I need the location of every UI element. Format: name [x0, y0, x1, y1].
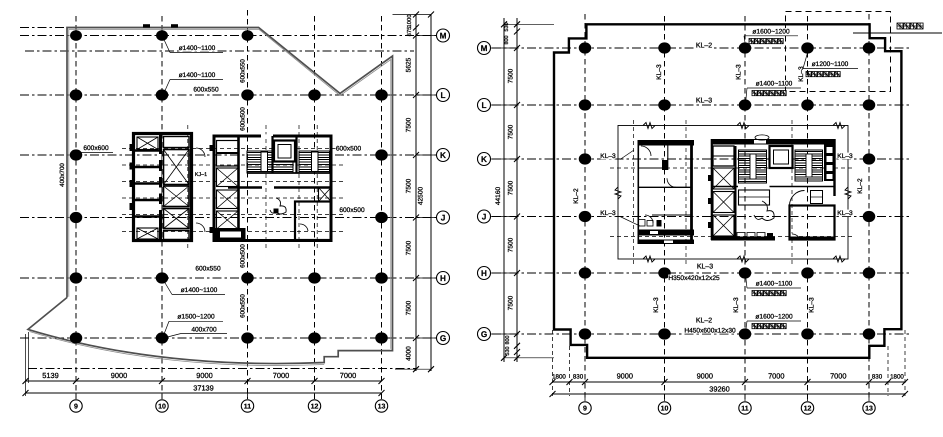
left plan core aux axis y231	[122, 231, 345, 233]
svg-text:7500: 7500	[406, 117, 413, 132]
svg-text:600x500: 600x500	[336, 146, 362, 153]
left core block B hatch bottom wall	[247, 172, 331, 174]
label 600x600 near K9	[83, 145, 109, 152]
right plan core aux axis x633	[633, 120, 635, 266]
left plan auxiliary axis y51	[25, 50, 414, 52]
left plan axis bubble 12	[314, 393, 316, 399]
left plan core label KJ-1	[195, 172, 207, 177]
right plan axis bubble L	[491, 104, 517, 106]
label KL-3 row K east	[838, 153, 853, 160]
column G-12	[308, 332, 321, 343]
right column M-12	[801, 42, 814, 53]
label hou-bao CJK top	[749, 39, 783, 44]
right plan left dim tick	[514, 102, 520, 108]
svg-text:KL–2: KL–2	[857, 178, 864, 194]
svg-text:KJ–1: KJ–1	[195, 172, 207, 178]
right plan left dim extension top	[504, 23, 554, 25]
svg-text:400x700: 400x700	[59, 163, 66, 187]
left plan bottom dim tick	[379, 378, 385, 384]
left core block A cell wall 4	[135, 199, 161, 201]
right core west block partition 3	[652, 214, 692, 216]
left plan slab outline	[28, 28, 393, 364]
svg-text:10: 10	[661, 405, 669, 412]
right core boundary box	[618, 126, 848, 260]
left plan bottom dim tick	[73, 378, 79, 384]
left core block B elevator flank wall west	[271, 136, 273, 173]
right core east lower-right door gap	[792, 234, 799, 241]
svg-text:ø1400~1100: ø1400~1100	[756, 81, 793, 88]
right plan axis bubble 12	[807, 394, 809, 401]
left plan right dimension line	[415, 14, 417, 371]
right core east stair rail east	[806, 154, 812, 177]
left plan right total dimension line	[430, 14, 432, 371]
right core west block left wall	[637, 140, 639, 244]
right plan bottom total dimension line	[553, 393, 906, 395]
label KL-2 row G	[696, 317, 712, 324]
right core east bottom wall	[711, 237, 775, 241]
column L-12	[308, 89, 321, 100]
svg-text:11: 11	[244, 403, 252, 410]
left core block B stair hatch east	[299, 151, 330, 173]
left plan core aux axis y165	[122, 164, 345, 166]
svg-text:7500: 7500	[406, 178, 413, 193]
column M-10	[156, 30, 168, 41]
column G-9	[70, 332, 83, 343]
column J-13	[375, 212, 388, 223]
left core block A elevator shaft X 1	[164, 150, 190, 185]
label phi1200-1100	[812, 61, 849, 68]
left plan row axis K	[20, 154, 448, 156]
left core block B small shaft X	[319, 188, 332, 202]
left plan axis bubble J	[416, 217, 436, 219]
left plan corner extension line	[28, 332, 30, 383]
left plan slab bottom edge second line	[30, 332, 325, 366]
svg-text:7000: 7000	[340, 371, 356, 380]
right core east stair hatch west	[739, 150, 767, 183]
left plan row axis J	[20, 217, 448, 219]
right core west block fixtures	[638, 220, 645, 227]
svg-text:M: M	[481, 44, 488, 53]
right plan row axis G	[492, 333, 912, 335]
svg-text:K: K	[440, 151, 446, 160]
column L-10	[156, 89, 169, 100]
left core block A outer walls	[134, 134, 192, 241]
right plan bottom dim tick	[866, 379, 872, 385]
left plan right dim tick	[413, 33, 419, 39]
svg-text:ø1400~1100: ø1400~1100	[756, 281, 793, 288]
right plan left dim extension bottom	[504, 357, 554, 359]
right column L-13	[863, 99, 876, 110]
svg-text:42500: 42500	[418, 187, 425, 206]
right core boundary break bottom	[643, 256, 655, 262]
right core east mid wall	[712, 186, 738, 188]
svg-text:G: G	[481, 330, 487, 339]
left plan top edge wall stub B	[171, 24, 178, 27]
label hou-bao CJK mid	[752, 91, 786, 96]
left plan column grid line 13	[381, 16, 383, 399]
right plan left dim tick	[514, 355, 520, 361]
left plan slab outline inner line	[69, 29, 391, 349]
right core east block shaft X 3	[713, 215, 734, 236]
left core block A center wall	[159, 134, 162, 241]
right core east block top wall	[711, 139, 835, 145]
svg-text:M: M	[440, 31, 447, 40]
svg-text:ø1500~1200: ø1500~1200	[177, 314, 215, 321]
left plan right dim tick	[413, 275, 419, 281]
right plan column grid line 11	[744, 16, 746, 399]
right core east stair landing	[739, 190, 770, 205]
right plan bottom dimension line	[553, 381, 906, 383]
svg-text:ø1600~1200: ø1600~1200	[752, 29, 790, 36]
right core east stair hatch east	[795, 150, 823, 181]
left plan axis bubble L	[416, 94, 436, 96]
right core east elevator	[770, 146, 793, 168]
right plan left dim tick	[514, 349, 520, 355]
svg-text:44160: 44160	[495, 187, 502, 206]
column G-13	[375, 332, 388, 343]
svg-text:ø1400~1100: ø1400~1100	[179, 45, 216, 52]
right plan column grid line 12	[807, 16, 809, 399]
left plan axis bubble 10	[161, 393, 163, 399]
left plan core aux axis y148	[122, 148, 345, 150]
column K-13	[375, 149, 388, 160]
right core west block partition 1	[638, 167, 668, 169]
column H-12	[308, 272, 321, 283]
left plan bottom dimension line	[26, 380, 382, 382]
right core east block shaft X 2	[713, 192, 734, 213]
right plan bottom dim tick	[885, 379, 891, 385]
right core east right wall	[833, 139, 835, 196]
svg-text:G: G	[440, 334, 446, 343]
left core block A door knob 3	[130, 180, 135, 187]
label phi1400-1100 right plan	[756, 80, 793, 87]
svg-text:ø1400~1100: ø1400~1100	[181, 287, 218, 294]
left core block A door knob 4	[130, 203, 135, 210]
right plan core aux axis x686	[685, 120, 687, 266]
right core west block right wall	[690, 140, 693, 244]
svg-text:11: 11	[741, 405, 749, 412]
left plan bottom dim extension 25	[25, 334, 27, 396]
left plan core aux axis x299	[298, 125, 300, 250]
svg-text:K: K	[481, 155, 487, 164]
left plan column grid line 10	[161, 16, 163, 399]
column K-9	[70, 149, 83, 160]
svg-text:530: 530	[504, 23, 510, 32]
svg-text:7500: 7500	[508, 180, 515, 195]
svg-text:800: 800	[505, 336, 511, 345]
svg-text:13: 13	[865, 405, 873, 412]
right column H-12	[801, 267, 814, 278]
svg-text:7000: 7000	[273, 371, 289, 380]
left core block A door knob 1	[130, 144, 135, 151]
right core east block shaft X 1	[713, 168, 734, 189]
right core west block bottom wall second	[638, 240, 695, 245]
right plan row axis L	[492, 104, 912, 106]
svg-text:530: 530	[505, 347, 511, 356]
left plan bottom dim tick	[159, 378, 165, 384]
svg-text:7500: 7500	[508, 124, 515, 139]
left plan right dim tick	[413, 335, 419, 341]
label KL-3 row J east	[838, 210, 853, 217]
left plan bottom dim tick	[245, 378, 251, 384]
svg-text:600x550: 600x550	[195, 266, 221, 273]
left plan core aux axis x187	[187, 125, 189, 248]
svg-text:KL–2: KL–2	[696, 43, 712, 50]
svg-text:KL–3: KL–3	[653, 297, 660, 313]
right plan bottom dim tick	[902, 379, 908, 385]
left plan right dim extension top	[393, 14, 432, 16]
label KL-2 row M	[696, 42, 712, 49]
right core east block door knob 1	[708, 175, 712, 181]
label 600x550 near H	[195, 265, 221, 272]
svg-text:KL–3: KL–3	[837, 210, 853, 217]
right plan axis bubble 9	[584, 394, 586, 401]
right plan axis bubble K	[491, 158, 517, 160]
svg-text:KL–3: KL–3	[697, 264, 713, 271]
label 600x550 near L	[193, 86, 219, 93]
left plan corridor door arc	[196, 148, 205, 157]
right core west block door arc 3	[645, 215, 653, 223]
right core west block bottom wall	[638, 230, 695, 236]
label H450x600x12x30	[684, 327, 736, 334]
left plan column grid line 12	[314, 16, 316, 399]
left plan axis bubble M	[416, 35, 436, 37]
svg-text:H: H	[440, 274, 446, 283]
column H-11	[241, 272, 254, 283]
left plan bottom total dimension line	[26, 392, 382, 394]
left core block A top-right cell	[164, 137, 190, 148]
svg-text:5625: 5625	[406, 57, 413, 72]
left plan bottom dim tick	[23, 378, 29, 384]
left core block A cell wall 1	[135, 149, 161, 151]
right column H-9	[579, 267, 592, 278]
right core east stair rail west	[750, 154, 756, 179]
right plan bottom dim tick	[567, 379, 573, 385]
right plan core aux axis y168	[610, 167, 855, 169]
right plan dim extension line x905	[904, 330, 906, 396]
label phi1400-1100 second	[179, 72, 216, 79]
left plan core aux axis x266	[265, 125, 267, 250]
right column L-10	[658, 99, 671, 110]
left plan core aux axis y181	[122, 181, 345, 183]
left plan axis bubble K	[416, 154, 436, 156]
svg-text:KL–2: KL–2	[696, 318, 712, 325]
svg-text:1800: 1800	[890, 374, 904, 381]
right core west block partition 2	[638, 186, 692, 188]
left plan column grid line 9	[75, 16, 77, 399]
svg-text:KL–3: KL–3	[837, 153, 853, 160]
svg-text:7000: 7000	[768, 372, 784, 381]
right core west block door arc 2	[667, 178, 676, 187]
svg-text:9000: 9000	[617, 372, 633, 381]
label phi1600-1200 row G	[756, 313, 793, 320]
svg-text:H350x420x12x25: H350x420x12x25	[668, 275, 720, 282]
left core block B stair rail west	[261, 152, 268, 172]
left core block B elevator flank wall east	[295, 136, 297, 173]
svg-text:10: 10	[158, 403, 166, 410]
right plan left dim tick	[514, 331, 520, 337]
right core boundary break top	[833, 123, 845, 129]
svg-text:ø1400~1100: ø1400~1100	[179, 72, 216, 79]
left core block B top wall gap	[261, 134, 273, 138]
svg-text:1000: 1000	[406, 15, 413, 28]
svg-text:9000: 9000	[111, 371, 127, 380]
svg-text:KL–3: KL–3	[600, 153, 616, 160]
right plan column grid line 10	[664, 16, 666, 399]
right plan left dim tick	[514, 343, 520, 349]
svg-text:800: 800	[504, 36, 510, 45]
right column M-11	[739, 42, 752, 53]
right core east block marker oval	[755, 135, 769, 140]
label KL-3 row K west	[601, 153, 616, 160]
right core west block top wall	[638, 140, 695, 146]
right core east small room hatch	[811, 191, 823, 204]
left plan row axis G	[20, 337, 448, 339]
left core block B fixture	[274, 209, 279, 214]
column J-9	[70, 212, 83, 223]
right plan axis bubble 13	[868, 394, 870, 401]
svg-text:ø1200~1100: ø1200~1100	[812, 61, 849, 68]
left plan right dim tick	[413, 12, 419, 18]
right column M-13	[863, 42, 876, 53]
left core block B outer walls	[214, 136, 331, 241]
svg-text:H: H	[481, 269, 487, 278]
label KL-3 row J west	[601, 210, 616, 217]
svg-text:L: L	[481, 101, 486, 110]
svg-text:600x550: 600x550	[240, 59, 247, 83]
right plan dim extension line x569	[569, 346, 571, 396]
left core block A door slits	[158, 154, 162, 160]
svg-text:13: 13	[378, 403, 386, 410]
right plan left dim tick	[514, 21, 520, 27]
right column L-9	[579, 99, 592, 110]
label phi1400-1100 top	[179, 45, 216, 52]
right column G-13	[863, 328, 876, 339]
svg-text:9: 9	[583, 405, 587, 412]
left plan right dim extension bottom	[395, 368, 431, 370]
right plan axis bubble G	[491, 333, 517, 335]
column M-11	[242, 30, 254, 41]
svg-text:5139: 5139	[42, 371, 58, 380]
svg-text:KL–3: KL–3	[736, 64, 743, 80]
label KL-3 row H	[697, 263, 713, 270]
right plan left dim tick	[514, 214, 520, 220]
column G-10	[156, 332, 169, 343]
right core west block inner wall stub	[662, 160, 668, 170]
right column L-12	[801, 99, 814, 110]
patch area label bu-que-fan-wei	[897, 23, 923, 29]
right core boundary break right	[845, 187, 851, 199]
left plan axis bubble 11	[247, 393, 249, 399]
right plan core aux axis x792	[791, 120, 793, 266]
right column H-11	[739, 267, 752, 278]
left plan row axis H	[20, 277, 448, 279]
column H-9	[70, 272, 83, 283]
left core block B stair rail east	[312, 152, 319, 172]
right core east door cloud	[754, 201, 774, 221]
right plan row axis K	[492, 158, 912, 160]
right core east block door knob 3	[708, 222, 712, 228]
right plan left total dimension line	[503, 18, 505, 362]
right plan column grid line 9	[584, 14, 586, 399]
left core block A top-left shaft X	[137, 137, 158, 150]
right column G-10	[658, 328, 671, 339]
right plan row axis H	[492, 272, 912, 274]
left plan axis bubble 13	[381, 393, 383, 399]
label phi1400-1100 row H	[756, 280, 793, 287]
svg-text:KL–3: KL–3	[696, 98, 712, 105]
svg-text:600x500: 600x500	[339, 207, 365, 214]
svg-text:J: J	[441, 213, 446, 222]
svg-text:600x550: 600x550	[240, 294, 247, 318]
right plan left dim tick	[514, 29, 520, 35]
right core west block door arc 1	[641, 146, 651, 156]
column L-13	[375, 89, 388, 100]
left plan column grid line 11	[247, 10, 249, 399]
svg-text:7500: 7500	[406, 240, 413, 255]
right column H-10	[658, 267, 671, 278]
svg-text:7000: 7000	[830, 372, 846, 381]
right plan axis bubble J	[491, 216, 517, 218]
patch area label line	[853, 32, 942, 34]
label hou-bao CJK row G	[752, 324, 786, 329]
left core block A cell wall 3	[135, 182, 161, 184]
svg-text:J: J	[482, 212, 487, 221]
right column J-9	[579, 211, 592, 222]
right plan bottom dim tick	[550, 379, 556, 385]
svg-text:12: 12	[311, 403, 319, 410]
right plan axis bubble M	[491, 47, 517, 49]
left plan axis bubble H	[416, 277, 436, 279]
svg-text:39260: 39260	[709, 385, 730, 394]
left plan axis bubble 9	[75, 393, 77, 399]
column M-9	[70, 30, 82, 41]
left core block A elevator shaft X 2	[164, 186, 190, 207]
svg-text:L: L	[440, 91, 445, 100]
svg-text:830: 830	[573, 374, 584, 381]
right plan axis bubble 11	[744, 394, 746, 401]
right plan left dim tick	[514, 156, 520, 162]
svg-text:H450x600x12x30: H450x600x12x30	[684, 328, 736, 335]
svg-text:600x600: 600x600	[83, 145, 109, 152]
right plan axis bubble H	[491, 272, 517, 274]
left plan row axis L	[20, 94, 448, 96]
svg-text:12: 12	[804, 405, 812, 412]
left core block B mid wall	[228, 186, 262, 188]
right plan row axis J	[492, 216, 912, 218]
svg-text:600x550: 600x550	[193, 87, 219, 94]
right plan dim extension line x552	[552, 330, 554, 396]
right core east block lobby cell	[713, 146, 734, 166]
right core boundary break top	[737, 123, 749, 129]
right core east block door knob 2	[708, 198, 712, 204]
svg-text:KL–3: KL–3	[656, 64, 663, 80]
right core boundary break bottom	[737, 256, 749, 262]
right core boundary break left	[615, 187, 621, 199]
left core block B top-left lobby	[217, 141, 239, 167]
right column G-9	[579, 328, 592, 339]
right plan bottom dim tick	[742, 379, 748, 385]
left plan right dim tick	[413, 152, 419, 158]
right plan slab outline	[554, 24, 901, 358]
left plan bottom dim tick	[312, 378, 318, 384]
left plan row axis M	[20, 35, 448, 37]
right column G-12	[801, 328, 814, 339]
svg-text:1800: 1800	[552, 374, 566, 381]
svg-text:KL–3: KL–3	[733, 297, 740, 313]
left plan right dim tick	[413, 366, 419, 372]
right core boundary break bottom	[833, 256, 845, 262]
